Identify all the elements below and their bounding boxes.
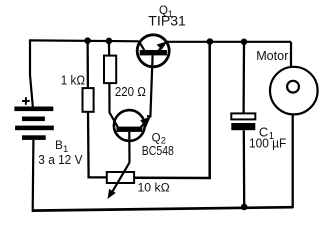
motor outer circle xyxy=(270,67,318,115)
wire C1 top xyxy=(242,42,245,114)
resistor R 220 body xyxy=(104,56,116,84)
transistor Q2 circle xyxy=(114,110,145,141)
svg-text:BC548: BC548 xyxy=(142,143,174,158)
wire bottom rail xyxy=(32,207,294,210)
pot wiper arrow diagonal xyxy=(108,163,130,200)
svg-text:B: B xyxy=(55,138,63,152)
motor inner circle xyxy=(287,81,299,93)
svg-text:220 Ω: 220 Ω xyxy=(115,84,146,99)
svg-text:TIP31: TIP31 xyxy=(148,13,186,28)
transistor Q1 emitter with arrow xyxy=(157,41,168,50)
wire right vertical motor bottom xyxy=(292,115,294,208)
transistor Q1 circle xyxy=(137,35,169,67)
wire left vertical (battery top) xyxy=(30,39,33,106)
node dot rail x210 xyxy=(207,38,214,45)
node dot rail x244 xyxy=(241,39,248,46)
wire top rail right segment xyxy=(167,41,291,43)
capacitor C1 bottom plate xyxy=(231,123,255,130)
wire Q1 base down to Q2 emitter xyxy=(147,55,153,116)
wire C1 bottom xyxy=(243,130,246,207)
wire Q2 base down xyxy=(128,132,130,163)
wire 1k top xyxy=(86,41,89,88)
battery plus sign xyxy=(22,97,30,105)
svg-text:Motor: Motor xyxy=(256,48,289,63)
transistor Q1 collector lead xyxy=(139,41,145,50)
svg-text:3 a 12 V: 3 a 12 V xyxy=(38,152,83,167)
svg-text:100 µF: 100 µF xyxy=(249,135,286,150)
wire 220 bottom to Q2 collector xyxy=(109,83,117,127)
wire 1k bottom to pot xyxy=(88,112,107,178)
svg-text:1 kΩ: 1 kΩ xyxy=(61,73,85,88)
transistor Q1 base bar xyxy=(140,50,167,55)
wire 220 top xyxy=(108,41,110,56)
wire battery bottom to rail xyxy=(32,140,35,211)
battery B1 xyxy=(14,107,53,140)
wire motor top lead xyxy=(290,42,292,67)
node dot rail x88 xyxy=(84,37,91,44)
node dot bottom rail xyxy=(241,204,248,211)
capacitor C1 top plate xyxy=(231,113,255,119)
wire pot right to rail riser xyxy=(134,42,210,178)
resistor R 1k body xyxy=(83,88,94,112)
svg-text:10 kΩ: 10 kΩ xyxy=(138,180,171,194)
transistor Q2 emitter with arrow xyxy=(140,117,150,128)
wire top rail left segment xyxy=(30,39,139,42)
transistor Q2 base bar xyxy=(117,127,143,132)
potentiometer P1 10k body xyxy=(107,172,134,183)
node dot rail x109 xyxy=(106,38,113,45)
